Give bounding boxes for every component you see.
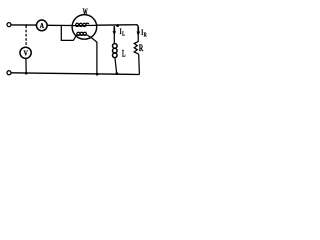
coil voltage loops bbox=[77, 32, 87, 35]
node V-tap bbox=[25, 24, 27, 26]
node junction L-top bbox=[116, 24, 119, 27]
arrow I_L bbox=[113, 27, 117, 35]
inductor L coil bbox=[113, 44, 118, 58]
wire dashed: V-tap down to voltmeter bbox=[25, 26, 27, 47]
svg-text:V: V bbox=[24, 48, 29, 57]
terminal bottom-left bbox=[7, 71, 11, 75]
resistor R zigzag bbox=[134, 42, 139, 55]
coil current loops bbox=[76, 23, 89, 26]
node W-tap bbox=[61, 25, 63, 27]
node junction V-bottom bbox=[25, 72, 28, 75]
ammeter A1 bbox=[36, 20, 47, 31]
wire: voltage-coil left lead bbox=[61, 26, 76, 41]
svg-text:R: R bbox=[144, 32, 147, 38]
wire: L branch upper bbox=[113, 26, 115, 44]
wire: R branch upper bbox=[137, 27, 139, 42]
wire top: wattmeter to right corner bbox=[97, 25, 139, 28]
svg-text:A: A bbox=[40, 21, 45, 30]
wire: R branch lower bbox=[138, 54, 141, 74]
wire: L branch lower bbox=[115, 57, 117, 73]
svg-text:W: W bbox=[83, 7, 88, 17]
svg-text:R: R bbox=[139, 44, 143, 54]
svg-text:L: L bbox=[122, 49, 126, 59]
wire top: terminal to ammeter bbox=[11, 24, 36, 26]
svg-text:L: L bbox=[122, 32, 125, 38]
arrow I_R bbox=[137, 27, 141, 36]
terminal top-left bbox=[7, 23, 11, 27]
wire bottom bbox=[11, 73, 139, 75]
wire: current coil through-wire bbox=[72, 24, 97, 26]
node junction W-bottom bbox=[96, 73, 99, 76]
node junction L-bottom bbox=[115, 72, 118, 75]
op wattmeter W1 circle bbox=[72, 15, 97, 40]
wire: voltmeter to bottom wire bbox=[25, 58, 27, 73]
wire: ammeter to wattmeter bbox=[47, 24, 72, 26]
wire: voltage-coil right lead down bbox=[87, 35, 97, 74]
voltmeter V bbox=[20, 47, 31, 58]
